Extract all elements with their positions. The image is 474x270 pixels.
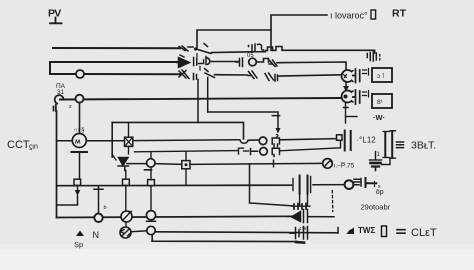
hatch blob under cap bank [292, 204, 310, 210]
label 29otoabr [361, 203, 391, 212]
label lovaroc [330, 11, 368, 21]
svg-text:ϛɩn: ϛɩn [29, 144, 38, 151]
end blob on B4 [296, 241, 304, 244]
svg-text:s: s [378, 184, 381, 190]
svg-text:ι.–P̅.75: ι.–P̅.75 [334, 162, 355, 170]
label b [104, 205, 107, 211]
wire row y141 right of X box [133, 139, 240, 142]
thyristor V1 [112, 154, 129, 171]
small box on y151 [272, 148, 279, 156]
aux box with X [125, 137, 133, 146]
svg-text:z: z [69, 104, 72, 110]
contactor circle K1 [342, 70, 352, 82]
wire left riser [56, 111, 58, 218]
flag icon before TWE [347, 228, 355, 235]
wire drop from breaker pole3 a [197, 80, 199, 123]
wire ctrl row y112 [208, 112, 280, 128]
meter circle bottom x151 [147, 226, 155, 234]
breaker QF1 pole 2 [177, 55, 210, 68]
svg-text:05: 05 [247, 53, 254, 59]
node PV label [48, 8, 61, 20]
wire bus L1 left [53, 47, 180, 49]
contact blob 2 on L3 [265, 73, 278, 81]
terminal ring on M1 [345, 180, 354, 189]
label CCT [7, 139, 38, 151]
small marks [363, 91, 369, 98]
terminal box [382, 226, 387, 237]
bracket and W label under boxes [346, 116, 358, 118]
junction bump on y141 [240, 140, 248, 143]
wire H1 to dot box [155, 163, 182, 166]
wire L2 jog [256, 59, 268, 63]
svg-text:N: N [93, 230, 100, 240]
svg-text:RT: RT [392, 8, 407, 20]
svg-text:Ṣp: Ṣp [74, 240, 83, 249]
link wire to circle x151 [131, 230, 147, 233]
coil Q circle on L2 [249, 58, 257, 66]
wire y151 to L12 [280, 141, 341, 151]
contact K1 blob on L1 [249, 44, 266, 52]
loop terminal on N2 [94, 214, 102, 222]
wire ctrl row y121 [112, 122, 243, 138]
arrow down under S1 [77, 186, 79, 191]
label RT [392, 8, 407, 20]
relay box B1 [372, 68, 392, 82]
hanging tap T at x98 [94, 186, 103, 214]
equals sign [397, 230, 405, 234]
contact D blob on L2 [269, 60, 277, 67]
svg-text:CCT: CCT [7, 139, 30, 151]
label 1.-P.75 [334, 162, 355, 170]
wire L3 mid [215, 74, 248, 76]
wire bus B4 (y241) [152, 235, 297, 241]
wire bus M1 (y186) [57, 184, 292, 187]
ground symbol under PV [50, 18, 62, 24]
wire bus N2 (y217) [57, 216, 292, 217]
wire stem lamp to row y151 [150, 152, 152, 159]
relay box B2 [372, 94, 392, 108]
terminal circle on y141 [259, 137, 267, 145]
svg-text:ɔ ˥: ɔ ˥ [377, 73, 385, 80]
label L12 [357, 136, 377, 145]
bottom light band [0, 248, 474, 270]
wire cap to right [382, 158, 391, 165]
wire L1 mid [212, 51, 251, 54]
svg-text:ı lovaroc°: ı lovaroc° [330, 11, 368, 21]
svg-text:·°L12: ·°L12 [357, 136, 377, 145]
svg-text:ōp: ōp [376, 189, 384, 196]
wire motor feed [79, 103, 81, 134]
svg-text:TWΣ: TWΣ [358, 226, 375, 235]
terminal square S1 on bus [74, 179, 81, 185]
wire L3 right into gate [279, 75, 340, 76]
capacitor bank on bus M1 end [293, 176, 311, 194]
wire S3 chain down [150, 168, 152, 211]
motor M1 [72, 134, 86, 148]
label CLET [411, 227, 437, 239]
bar contact [251, 149, 258, 155]
CT hook on neutral bus [54, 95, 64, 111]
wire L1 right with jog [266, 47, 375, 54]
breaker QF1 pole 3 [179, 69, 215, 80]
cap bank lower stems [300, 194, 308, 206]
wire L2 right into gate [277, 62, 346, 69]
contactor circle K2 [342, 91, 352, 103]
wire dot box right, long [190, 160, 323, 167]
T drop at x241 [250, 164, 293, 206]
motor terminal bar [72, 151, 88, 153]
capacitor plates right of K1 [353, 69, 360, 83]
stem from y151 to dot box [185, 152, 187, 161]
wire bus B3 (y233) [155, 232, 337, 233]
stub under K2 [344, 103, 349, 123]
wire L2 corner down [50, 62, 76, 74]
svg-text:b: b [104, 205, 107, 211]
wire top link from breaker [197, 30, 271, 48]
breaker QF1 pole 1 [179, 44, 211, 54]
label 05 [247, 53, 254, 59]
breaker linkage dashes [197, 54, 200, 71]
transistor cluster on N2 end [287, 210, 308, 223]
node terminal circle on L3 [76, 70, 84, 78]
cluster on B3 [290, 227, 308, 240]
meter circle on N2 at x151 [146, 211, 155, 220]
arrow down at x278 [276, 128, 281, 134]
label F1 S [74, 128, 85, 134]
label 3BLT [411, 140, 436, 152]
wire L2 mid [210, 61, 238, 63]
wire row y141 motor to X box [86, 140, 124, 142]
wire bus L3 left [85, 73, 181, 75]
terminal box after label [371, 10, 376, 19]
meter circle with slash on N2 [121, 211, 132, 222]
L12 square [337, 135, 343, 141]
label RA 31 [56, 83, 66, 96]
stem below X box [128, 146, 130, 154]
label N [93, 230, 100, 240]
wire L-link to left riser [57, 196, 78, 205]
label z [69, 104, 72, 110]
small marks [363, 69, 369, 76]
stem above X box [128, 123, 130, 138]
connector X1 hatch end of L1 [367, 52, 380, 61]
terminal square S2 [123, 179, 130, 185]
rotary switch on y163 [323, 159, 333, 169]
svg-text:∩ı §: ∩ı § [74, 128, 85, 134]
wire N2 stub right [308, 216, 334, 218]
wire stem dot box down to bus M1 [185, 169, 187, 186]
capacitor plates right of K2 [353, 90, 360, 104]
wire neutral bus N (long) [60, 98, 340, 100]
wire chain x125 down to row3 [125, 222, 127, 227]
L12 capacitor bars [344, 131, 346, 151]
node junction circle on N [76, 95, 84, 103]
wire motor down chain [79, 152, 81, 179]
tiny box and plus [354, 179, 361, 187]
tick at end [239, 148, 244, 154]
svg-text:ʍ: ʍ [74, 139, 81, 146]
wire ctrl row y151 [135, 151, 239, 152]
wire drop x111 to thyristor [111, 122, 113, 157]
label op [376, 184, 384, 196]
wire vertical to top label [271, 15, 327, 50]
arrow link between contactors [345, 83, 347, 87]
svg-text:4?8: 4?8 [299, 226, 307, 231]
wire S2 chain down [125, 171, 127, 212]
svg-text:29otoabr: 29otoabr [361, 203, 391, 212]
polarized cap stack [375, 152, 377, 160]
dot box [182, 161, 190, 169]
wire to motor left [57, 140, 73, 142]
lamp circle H1 [147, 159, 155, 167]
wire bus L2 left [50, 61, 180, 63]
svg-text:3BᴌT.: 3BᴌT. [411, 140, 436, 152]
dashed vertical [331, 191, 334, 212]
triple bar [397, 142, 404, 148]
capacitor C1 on L2 [236, 58, 243, 67]
svg-text:CLεT: CLεT [411, 227, 437, 239]
svg-text:·W·: ·W· [373, 113, 385, 122]
terminal circle on y151 [260, 148, 268, 156]
wire drop from breaker pole3 b [207, 78, 209, 113]
contact blob on L3 [248, 71, 257, 79]
wire B3 right stub and hook [337, 228, 339, 234]
terminal square S3 [148, 180, 155, 186]
ground triangle Sp [76, 231, 84, 237]
bracket bars tall [385, 131, 392, 158]
wire bus M1 resume [313, 184, 344, 186]
small box component on y141 [272, 138, 279, 147]
meter circle bottom x125 [120, 227, 131, 238]
wire V1 out [127, 163, 146, 165]
label TWE [358, 226, 375, 235]
svg-text:8¹: 8¹ [377, 99, 384, 106]
